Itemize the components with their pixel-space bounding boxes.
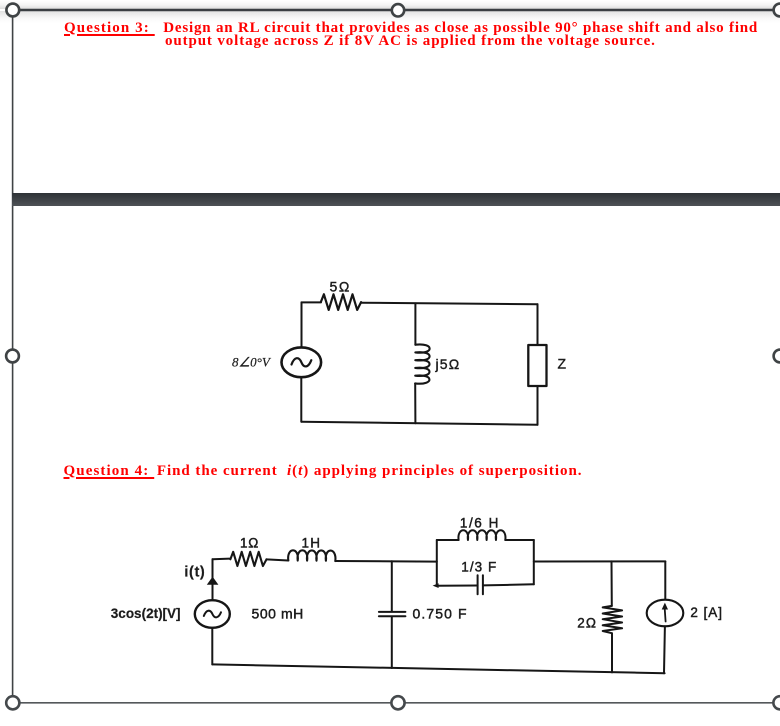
- voltage source V2 sine symbol: [204, 611, 221, 618]
- LC block bottom edge left part: [437, 585, 478, 587]
- current direction arrow i(t): [207, 577, 219, 585]
- wire V1 bottom lead: [300, 377, 302, 422]
- svg-text:1Ω: 1Ω: [240, 535, 259, 550]
- wire bottom: [302, 422, 538, 425]
- wire source up branch: [212, 559, 214, 600]
- handle mid-left: [6, 350, 19, 363]
- current source arrow head: [662, 603, 668, 610]
- LC block top edge left part: [437, 539, 459, 541]
- wire right branch upper: [537, 304, 539, 345]
- resistor R2 1ohm: [230, 552, 266, 566]
- inductor L2 1H: [288, 550, 335, 561]
- frame top line: [13, 9, 780, 11]
- LC block right edge: [533, 540, 535, 584]
- LC block top edge right part: [505, 539, 534, 541]
- voltage source V2 circle: [195, 600, 230, 628]
- wire top segment to resistor: [213, 558, 231, 561]
- top gradient band above/below page border: [0, 0, 780, 9]
- resistor R3 branch upper wire: [611, 561, 613, 606]
- current source I1 circle: [647, 600, 684, 627]
- inductor L1 j5ohm coil: [415, 344, 429, 383]
- handle bottom-right: [773, 696, 780, 709]
- wire source down branch: [211, 628, 213, 665]
- wire middle branch lower: [414, 384, 416, 424]
- capacitor C1 branch lower wire: [391, 617, 393, 668]
- current source arrow: [665, 607, 666, 622]
- voltage source V1 circle: [282, 347, 322, 377]
- svg-text:500 mH: 500 mH: [252, 606, 304, 622]
- Question 4 heading text: [64, 465, 155, 478]
- svg-text:i(t): i(t): [184, 565, 205, 581]
- capacitor C1 plate bottom: [379, 615, 406, 617]
- wire top-right segment: [361, 303, 538, 305]
- LC block bottom edge right part: [483, 584, 534, 585]
- wire LC block to right branches: [534, 560, 666, 562]
- handle bottom-middle: [391, 696, 404, 709]
- wire top-left segment: [302, 301, 322, 303]
- LC block left edge: [436, 540, 438, 586]
- wire bottom: [212, 664, 664, 673]
- current source branch upper wire: [664, 561, 666, 598]
- frame left line: [12, 10, 14, 696]
- LC block corner arrow head: [433, 583, 439, 588]
- svg-text:1H: 1H: [302, 535, 322, 550]
- wire V1 top lead: [301, 302, 303, 347]
- Question 3 heading text: [64, 22, 155, 35]
- svg-text:0.750 F: 0.750 F: [413, 606, 468, 622]
- separator bar: [12, 193, 780, 206]
- svg-text:1/3 F: 1/3 F: [461, 559, 497, 574]
- capacitor C1 branch upper wire: [391, 561, 393, 611]
- capacitor C2 plate left: [477, 575, 479, 594]
- svg-text:2Ω: 2Ω: [577, 616, 597, 631]
- voltage source sine symbol: [292, 358, 312, 366]
- frame bottom line: [12, 702, 780, 704]
- svg-text:3cos(2t)[V]: 3cos(2t)[V]: [111, 606, 181, 621]
- svg-text:2 [A]: 2 [A]: [690, 605, 723, 620]
- svg-text:1/6 H: 1/6 H: [460, 515, 500, 530]
- handle top-left: [6, 4, 19, 17]
- wire right branch lower: [537, 386, 539, 425]
- resistor R3 branch lower wire: [611, 633, 613, 672]
- handle top-right: [774, 4, 780, 17]
- capacitor C1 plate top: [379, 611, 406, 613]
- handle top-middle: [392, 4, 404, 16]
- inductor L3 1/6H coil: [458, 530, 505, 540]
- current source branch lower wire: [663, 626, 666, 673]
- wire L2 to LC block: [335, 560, 436, 563]
- handle bottom-left: [6, 696, 19, 709]
- handle mid-right: [774, 350, 780, 363]
- wire between R2 and L2: [267, 559, 289, 560]
- capacitor C2 plate right: [482, 575, 484, 594]
- impedance Z box: [528, 345, 546, 386]
- wire middle branch upper: [414, 303, 416, 344]
- resistor R1 5ohm: [321, 294, 361, 310]
- resistor R3 2ohm zigzag: [603, 606, 622, 633]
